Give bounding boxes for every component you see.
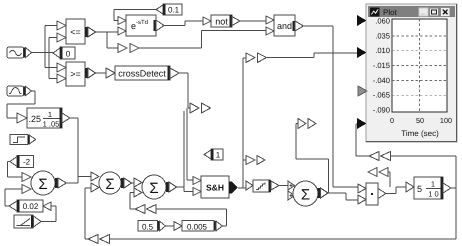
transfer function 5 1/(1 0) (406, 177, 451, 199)
and block (266, 15, 304, 36)
plot input 3 (358, 86, 367, 96)
wire sum2 output to sum3 (132, 182, 135, 184)
wire transfer function output down to sum2 (70, 118, 91, 183)
step generator (10, 135, 36, 145)
plot input 1 (357, 15, 367, 26)
wire sum1 output (67, 182, 79, 184)
plot minimize button (419, 8, 428, 16)
svg-text:Σ: Σ (38, 176, 47, 193)
wire S&H output branch up (243, 58, 246, 188)
svg-text:1 0: 1 0 (428, 190, 438, 199)
plot input 2 (357, 47, 367, 58)
wire S&H output to quantizer (238, 187, 246, 189)
summing junction 1 (22, 171, 67, 195)
plot x axis labels (390, 116, 452, 125)
svg-text:.035: .035 (375, 31, 390, 40)
wire >= output to crossDetect (96, 72, 107, 74)
svg-text:0.1: 0.1 (168, 6, 180, 15)
wire not output to and upper input (240, 20, 266, 22)
wire feedback to plot input 4 (356, 124, 456, 156)
wire 0.5 to 0.005 (166, 225, 175, 227)
constant 0 (53, 47, 75, 59)
svg-text:Σ: Σ (105, 176, 114, 193)
sine generator 1 (7, 47, 32, 58)
wire <= output to timeDelay and branch (96, 32, 119, 48)
wire multiply output to transfer function (386, 187, 406, 194)
svg-text:0: 0 (66, 50, 71, 59)
quantizer (246, 180, 279, 192)
transfer function .25 1/(1 .05) (17, 108, 70, 129)
summing junction 2 (91, 172, 132, 194)
connector pair bottom feedback (88, 235, 110, 244)
svg-text:>=: >= (70, 69, 81, 79)
wire bottom feedback to sum2 (85, 188, 456, 239)
svg-text:.25: .25 (29, 114, 42, 124)
svg-text:-sTd: -sTd (136, 19, 148, 26)
svg-text:50: 50 (416, 116, 424, 125)
wire timeDelay output to not (164, 21, 203, 26)
svg-text:-.015: -.015 (373, 61, 390, 70)
plot window frame (366, 4, 457, 142)
not block (203, 15, 240, 27)
wire sine2 to transfer function (7, 91, 35, 118)
buffer pair after crossDetect (190, 103, 211, 113)
wire sum4 output to multiply (328, 193, 358, 200)
svg-text:5: 5 (417, 184, 422, 194)
wire 0.1 to timeDelay upper input (114, 10, 156, 21)
plot y axis labels (373, 17, 390, 115)
wire multiply input branch with connector pair (296, 124, 329, 194)
wire and output down to multiply (304, 26, 359, 187)
wire ramp to gain 0.02 (41, 206, 56, 222)
wire const0 to comparators (49, 38, 57, 79)
svg-text:0.5: 0.5 (142, 223, 154, 232)
svg-text:0.005: 0.005 (187, 223, 208, 232)
svg-text:100: 100 (440, 116, 452, 125)
svg-text:Time (sec): Time (sec) (401, 129, 439, 138)
connector pair sum3 loop (135, 205, 156, 214)
svg-text:0.02: 0.02 (23, 202, 39, 211)
plot close button (441, 8, 451, 17)
connector pair multiply branch (298, 119, 316, 129)
constant 1 (204, 149, 223, 160)
svg-text:1: 1 (431, 180, 435, 189)
wire crossDetect down to S&H clock (179, 73, 193, 180)
sample and hold S&H (193, 176, 238, 198)
svg-text:1 .05: 1 .05 (43, 120, 60, 129)
wire sum3 feedback loop (130, 193, 135, 210)
plot maximize button (430, 8, 439, 16)
svg-text:1: 1 (216, 151, 221, 160)
constant -2 (10, 156, 34, 168)
sine generator 2 (7, 86, 32, 96)
svg-text:0: 0 (390, 116, 394, 125)
svg-text:crossDetect: crossDetect (118, 69, 166, 79)
constant 0.1 (156, 4, 182, 15)
comparator >= (57, 62, 96, 86)
wire -2 to sum1 upper input (8, 162, 23, 178)
multiply block (358, 183, 386, 205)
connector pair to sum4 (246, 156, 265, 165)
svg-text:-2: -2 (23, 158, 31, 167)
svg-text:Σ: Σ (301, 187, 310, 204)
svg-text:-.090: -.090 (373, 106, 390, 115)
plot title bar (368, 6, 455, 17)
svg-text:S&H: S&H (206, 183, 224, 193)
wire quantizer to sum4 (279, 185, 288, 187)
wire 0.005 loop to sum3 (156, 209, 227, 226)
wire branch to plot input 2 (267, 53, 358, 58)
svg-text:and: and (277, 21, 292, 31)
wire gain 0.02 to sum1 lower input (5, 189, 22, 206)
wire vertical to S&H lower input (184, 111, 193, 192)
crossDetect label block (106, 66, 179, 80)
summing junction 3 (134, 175, 177, 199)
gain 0.02 (flipped) (9, 200, 51, 212)
plot input 4 (357, 118, 367, 129)
svg-text:Σ: Σ (149, 180, 158, 197)
gain 0.5 (138, 221, 166, 232)
ramp generator (14, 215, 41, 228)
comparator <= (57, 19, 96, 44)
svg-text:1: 1 (48, 110, 52, 119)
wire buffer pair to and lower input (139, 31, 266, 49)
svg-text:-.065: -.065 (373, 91, 390, 100)
buffer pair below timeDelay (118, 44, 139, 53)
svg-text:<=: <= (70, 27, 81, 37)
svg-text:.060: .060 (375, 17, 390, 26)
connector pair plot feedback (369, 152, 391, 161)
gain 0.005 (174, 221, 223, 232)
svg-text:not: not (215, 17, 228, 27)
wire connector pair to transfer function input (388, 172, 390, 187)
svg-text:.010: .010 (375, 46, 390, 55)
plot graph area (392, 19, 447, 112)
connector pair above multiply (368, 168, 388, 177)
summing junction 4 (288, 181, 328, 206)
connector pair upper branch (246, 53, 267, 63)
time delay e^-sTd (118, 15, 164, 36)
wire sine1 to comparators (32, 26, 58, 68)
svg-text:-.040: -.040 (373, 76, 390, 85)
wire sum3 output to S&H input (177, 187, 185, 192)
wire transfer function output right (451, 156, 456, 239)
